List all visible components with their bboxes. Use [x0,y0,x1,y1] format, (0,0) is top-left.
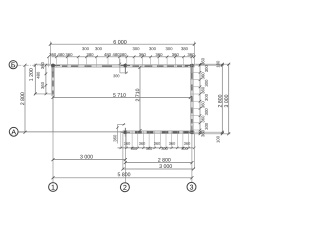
wall band top (grillage, axis B) [51,64,193,67]
extension line axis B right [196,64,224,66]
wall band left (grillage, axis 1) [51,64,54,95]
corner pile axis B/2 [121,63,130,73]
tick 2800B b [190,161,193,164]
tick 2800L bottom [24,131,27,134]
pile dash bottom band #3 [162,131,169,133]
axis A dash from bubble [18,131,25,133]
axis 1 extension line [52,132,54,183]
dimension line 2710 interior [139,67,141,130]
tick pile offset axis2 b [125,72,127,74]
chain labels bottom upper row [124,142,190,145]
tick 3000BL b [124,158,127,161]
pile dash left band #1 [52,72,54,78]
pile dash top band #5 [133,65,140,67]
extension line top-right [193,41,195,64]
pile dash top band #4 [102,65,112,67]
extension line axis A right [196,131,224,133]
dimension line 2800 right [221,64,223,134]
chain labels right [201,58,207,137]
tick 3000R top [227,63,230,66]
wall band right (grillage, axis 3) [190,64,193,134]
dim text 3000 right [224,95,228,108]
tick 3000BL a [52,158,55,161]
dimension line 2800 bottom [125,162,192,164]
tick 2800R b [221,64,224,67]
pile dash bottom band #1 [135,131,142,133]
tick pile offset axis2-bottom a [116,126,118,128]
axis bubble 3 [187,182,196,191]
extension line top-left [49,41,51,64]
tick pile offset axis2-bottom b [123,123,125,125]
tick 3000R bottom [227,132,230,135]
tick pile offset axis2 a [119,63,121,65]
pile dash bottom band #2 [147,131,154,133]
tick 5710 left [52,96,55,99]
pile dash top band #8 [167,65,174,67]
pile dash top band #6 [145,65,153,67]
pile dash bottom band #5 [183,131,189,133]
chain label 360 left top [41,62,44,69]
pile dash right band #3 [191,96,193,102]
dimension line 6000 [50,43,194,45]
tick 3000BR b [192,168,195,171]
dim text 2800 left [20,92,24,105]
corner pile axis A/2 [121,128,130,137]
dimension line 3000 bottom right [123,168,194,170]
extension line left band end [34,93,51,95]
tick 2800R a [221,63,224,66]
dim text 2800 bottom [158,158,171,162]
dimension line 5800 bottom [53,177,192,179]
pile dash left band #2 [52,81,54,87]
tick 5800 b [190,176,193,179]
label 300 pile offset axis2 [113,75,119,78]
axis bubble B [9,61,17,69]
corner pile axis B/1 [51,63,60,73]
dimension chain right piles [191,63,202,135]
pile dash right band #4 [191,108,193,114]
dimension line 2800 left [24,65,26,132]
dim text 1200 [29,68,33,80]
ext line pile offset axis2 vertical [119,59,121,73]
pile dash right band #1 [191,73,193,79]
corner pile axis A/3 [185,126,194,135]
tick 2710 bottom [139,129,142,132]
extension line 360 offset [117,124,119,143]
pile dash top band #3 [85,65,92,67]
pile dash left band #3 [52,91,54,95]
chain label 480 left [37,72,40,79]
tick 2800B a [124,161,127,164]
tick 5710 right [189,96,192,99]
dim text 100 bottom right [217,136,220,143]
tick 1200 bottom [34,92,37,95]
chain label 360 left bottom [41,82,44,89]
dim text 2800 right [218,95,222,108]
tick 2710 top [139,66,142,69]
axis B dash line [17,64,51,66]
tick 2800L top [24,64,27,67]
axis bubble 1 [49,183,58,192]
dim text 2710 [136,89,140,102]
extension line 3000R left [122,134,124,169]
tick 1200 top [34,64,37,67]
axis bubble A [9,127,18,136]
dim text 3000 bottom right [159,164,172,168]
pile dash right band #2 [191,85,193,91]
dim text 3000 bottom left [80,155,93,159]
dimension chain top piles [47,56,195,68]
axis bubble 2 [120,183,129,192]
extension line right band top [194,63,231,65]
wall band bottom (grillage, axes 2-3) [123,131,194,134]
outline left edge lower [52,96,54,132]
tick 6000 left [49,43,52,46]
dim text 5800 [118,173,131,177]
pile dash top band #10 [185,65,189,67]
dimension chain bottom piles [118,131,196,149]
chain labels top lower row [49,53,194,56]
axis A line / bottom outline [18,131,123,133]
tick 5800 a [52,176,55,179]
corner pile axis B/3 [185,63,194,73]
axis 3 extension line [191,134,193,183]
pile dash top band #7 [157,65,164,67]
tick 3000BR a [121,168,124,171]
pile dash top band #2 [71,65,78,67]
tick 2800R c [221,131,224,134]
dimension line 3000 bottom left [53,159,125,161]
dimension line 1200 left [34,65,36,94]
dimension line 3000 right [228,64,230,134]
pile dash top band #1 [62,65,68,67]
dim text 5710 [113,93,126,97]
dim text 6000 [114,40,127,44]
tick 6000 right [193,43,196,46]
tick 2800R d [221,132,224,135]
pile dash right band #5 [191,119,193,124]
ext line pile offset axis2-bottom horizontal [118,123,126,125]
chain labels top upper row [82,47,188,50]
dimension chain left piles [45,64,48,95]
pile dash top band #9 [177,65,182,67]
chain labels bottom lower row [131,147,188,150]
extension line left band top [34,63,52,65]
dim text 100 top right [217,61,220,68]
dim text 360 rotated bottom [113,135,116,142]
axis 2 extension line [124,134,126,183]
ext line pile offset axis2 horizontal [120,72,127,74]
extension line right band bottom [194,133,231,135]
dimension line 5710 interior [53,96,190,98]
pile dash bottom band #4 [173,131,180,133]
extension line 3000R right [193,134,195,169]
